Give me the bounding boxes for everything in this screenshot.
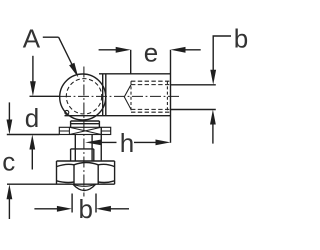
dim e left extension [130,50,132,74]
dim A arrowhead [69,63,78,78]
dim b bottom-left extension left [71,194,73,213]
neck left vertical [70,121,72,127]
washer side midline right [101,130,111,132]
dim h left arrowhead [85,140,101,146]
washer outline [59,127,110,134]
svg-text:A: A [23,23,41,53]
socket joint vertical 2 [105,74,107,116]
thread runout dashed vertical right [166,81,168,112]
ball (inner hidden circle, dashed) [66,79,101,114]
dim b bottom dim line right [110,208,130,210]
stud thread left [70,149,72,161]
dim e dim line left [99,49,117,51]
dim e dim line right [184,49,201,51]
svg-text:b: b [234,24,248,54]
dim e left arrowhead [116,47,131,53]
dim c top arrowhead [7,120,13,135]
housing neck chord [71,120,100,122]
drill cone [124,85,131,110]
svg-text:c: c [2,146,15,176]
svg-text:e: e [144,38,158,68]
stud step line [71,148,94,150]
nut bottom chamfer arc right [98,181,114,183]
tapped hole minor dashed top [131,84,169,86]
ball housing outer circle [60,74,106,120]
hole end dashed vertical left [130,81,132,112]
dim h right arrowhead [156,140,171,146]
svg-text:b: b [78,194,92,224]
dim b bottom right arrowhead [96,206,111,212]
nut bottom edge + c extension [7,183,115,185]
stud shank left [74,135,76,162]
dim c bottom arrowhead [7,184,13,199]
nut top chamfer arc left [57,164,75,166]
dim d bottom arrow tail [31,148,33,170]
housing bottom chord / socket bottom edge [65,115,171,117]
dim c washer-bottom extension [7,134,60,136]
stud thread right [93,149,95,161]
nut facet vertical right [97,165,99,184]
socket joint vertical 1 [102,74,104,116]
tapped hole major thread dashed top [131,80,169,82]
crimp detail small circle [65,110,69,114]
stud end arc [73,184,96,190]
nut right vertical [114,161,116,184]
tapped hole minor dashed bottom [131,108,169,110]
svg-text:d: d [25,103,39,133]
dim A leader horizontal [43,36,59,38]
nut top chamfer arc middle [74,163,98,165]
washer cup skirt vertical [100,127,102,160]
dim A leader diagonal [59,37,73,65]
housing neck chord 2 [71,123,100,125]
dim b bottom arrowhead [210,110,216,125]
washer X diagonal 2 [69,127,101,134]
washer inner vertical left [68,127,70,134]
dim b ext top [171,84,216,86]
nut left vertical [56,161,58,184]
dim e right arrowhead [171,47,186,53]
washer X diagonal 1 [69,127,101,134]
dim h dim line left [100,141,117,143]
nut facet vertical left [73,165,75,184]
tapped hole major thread dashed bottom [131,111,169,113]
dim c bottom arrow tail [8,198,10,220]
socket end face / shared extension vertical [170,50,172,143]
dim d top arrowhead [30,81,36,96]
nut bottom chamfer arc left [57,181,75,183]
dim b bottom left arrowhead [57,206,72,212]
dim c top arrow tail [8,102,10,121]
svg-text:h: h [120,128,134,158]
dim h dim line right [134,141,157,143]
dim b top arrowhead [210,70,216,85]
vertical centerline [83,67,85,197]
nut top edge [57,160,115,162]
stud end chamfer arc [73,184,96,186]
neck right vertical [98,121,100,127]
horizontal centerline [60,95,182,97]
dim b bottom-left extension right [95,194,97,213]
washer side midline left [59,130,69,132]
dim d top arrow tail [32,56,34,83]
dim d centerline extension [30,95,60,97]
stud shank right [91,135,93,162]
nut top chamfer arc right [98,164,114,166]
dim b top leader [213,36,231,71]
dim b bottom dim line left [34,208,58,210]
dim b ext bottom [171,109,216,111]
dim d bottom arrowhead [29,135,35,150]
dim b bottom arrow tail [212,123,214,144]
socket body top edge [99,73,170,75]
